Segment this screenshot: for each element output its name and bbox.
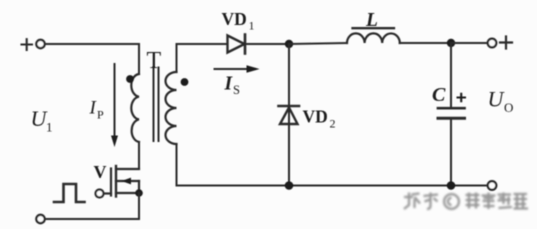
output + terminal [488,39,497,48]
svg-text:I: I [224,74,234,95]
wire: capacitor branch top [450,43,452,107]
input return terminal (bottom-left) [36,215,44,223]
current arrow IS [215,65,260,73]
transformer core [154,68,159,142]
capacitor C [438,108,465,118]
diode VD2 [279,106,300,124]
watermark (Zhihu) [404,193,528,210]
svg-text:U: U [488,87,506,112]
svg-text:T: T [147,48,162,74]
svg-text:P: P [97,108,104,122]
wire: secondary top to VD1 [177,44,228,72]
inductor L [347,28,400,43]
svg-text:O: O [504,100,513,115]
wire: inductor to node B [400,42,451,44]
pulse waveform symbol [54,184,85,202]
current arrow IP [111,64,118,147]
input plus sign (top-left) [22,39,33,50]
polarity dot (primary) [126,75,134,83]
svg-text:1: 1 [46,120,53,135]
junction dot: capacitor bottom [447,181,456,190]
transistor V (MOSFET) [104,166,140,197]
output plus sign (top-right) [500,37,512,49]
wire: capacitor branch bottom [450,120,452,186]
wire: node B to output + terminal [451,42,488,44]
wire: VD2 branch vertical [288,44,290,186]
svg-text:2: 2 [330,117,336,131]
input + terminal [36,40,44,48]
wire: VD1 to node A [245,43,289,45]
transformer T primary winding [131,74,139,142]
junction node B [447,39,455,47]
output return terminal (bottom-right) [488,181,497,190]
wire: node A to inductor [289,43,347,44]
junction node A [285,40,293,48]
wire: bottom rail (secondary side) [177,185,488,187]
wire: primary top drop [138,44,140,74]
wire: top-left rail [45,43,139,45]
svg-text:S: S [233,83,240,97]
wire: secondary bottom drop [176,144,178,186]
diode VD1 [228,35,246,54]
gate terminal circle [96,190,104,198]
junction dot: MOSFET source node [135,189,143,197]
svg-text:1: 1 [249,19,255,33]
junction dot: VD2 bottom [285,181,294,190]
svg-text:L: L [365,10,378,31]
svg-text:VD: VD [303,107,328,127]
wire: source down and bottom-left rail [45,193,139,219]
capacitor polarity plus [457,93,467,102]
svg-text:C: C [432,84,446,106]
svg-text:VD: VD [222,9,247,29]
transformer T secondary winding [166,72,177,144]
polarity dot (secondary) [181,78,189,86]
svg-text:V: V [94,162,107,182]
wire: primary bottom to MOSFET drain [138,142,140,169]
